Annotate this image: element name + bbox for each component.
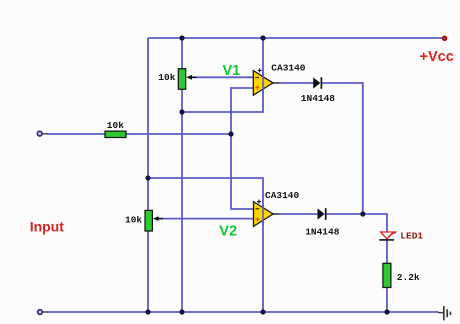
wire R1 wiper to U1 inverting input	[190, 76, 253, 78]
svg-text:LED1: LED1	[400, 230, 423, 241]
junction dot R1 bottom node	[179, 109, 184, 114]
wire left rail (+Vcc to pot R2 top and R2 bottom to ground rail)	[147, 38, 149, 312]
wire U1 output to diode D1	[273, 82, 314, 84]
wire D1 cathode right then down to output node	[322, 83, 363, 214]
wire D2 cathode to output node to LED1 anode	[326, 214, 387, 232]
svg-text:Input: Input	[30, 219, 65, 235]
wire U2 output to diode D2	[273, 213, 318, 215]
wire input to U1 noninverting input	[231, 88, 253, 134]
svg-text:2.2k: 2.2k	[397, 272, 420, 283]
junction dot top rail / V1 supply	[260, 35, 265, 40]
svg-text:10k: 10k	[125, 215, 142, 226]
terminal input upper	[37, 131, 47, 136]
diode D2 1N4148	[318, 208, 326, 220]
wire input to U2 inverting input	[231, 134, 253, 209]
wire V2 supply branch (left rail node y=178 right then down through U2 to ground rail)	[148, 178, 263, 312]
wire input line (terminal through R3 to node x=231)	[47, 133, 232, 135]
svg-text:1N4148: 1N4148	[305, 226, 340, 237]
junction dot top rail / R1	[179, 35, 184, 40]
wire V1 supply branch (top rail down through U1 to node at y=112, left to R1 bottom)	[182, 38, 263, 112]
wire R2 wiper to U2 noninverting input	[157, 218, 253, 220]
junction dot ground rail / R1 branch	[179, 309, 184, 314]
junction dot left rail / V2 supply	[145, 175, 150, 180]
svg-text:CA3140: CA3140	[265, 190, 300, 201]
resistor R4 2.2k vertical body	[383, 263, 391, 287]
LED LED1	[379, 231, 397, 240]
resistor R3 10k horizontal body	[105, 131, 126, 137]
node +Vcc terminal dot	[442, 36, 447, 41]
junction dot diode output node	[360, 211, 365, 216]
wire bottom ground rail	[47, 311, 439, 313]
svg-text:1N4148: 1N4148	[301, 93, 336, 104]
wire top +Vcc rail	[148, 37, 444, 39]
op-amp U1 CA3140	[253, 68, 279, 95]
potentiometer R1 10k body	[178, 69, 196, 90]
junction dot ground rail / V2 supply	[260, 309, 265, 314]
svg-text:V2: V2	[219, 224, 237, 240]
svg-text:10k: 10k	[107, 120, 124, 131]
potentiometer R2 10k body	[145, 210, 163, 231]
wire pot R1 branch (x=182 from +Vcc rail to ground rail)	[181, 38, 183, 312]
wire LED1 cathode through R4 to ground rail	[386, 240, 388, 312]
junction dot input node	[228, 131, 233, 136]
svg-text:V1: V1	[223, 63, 241, 79]
op-amp U2 CA3140	[254, 200, 280, 227]
svg-text:+Vcc: +Vcc	[420, 49, 454, 65]
junction dot ground rail / R4	[384, 309, 389, 314]
junction dot ground rail / left rail	[145, 309, 150, 314]
svg-text:10k: 10k	[158, 72, 175, 83]
terminal input lower	[38, 310, 48, 315]
svg-text:CA3140: CA3140	[271, 63, 306, 74]
ground symbol	[438, 306, 450, 320]
diode D1 1N4148	[313, 77, 321, 89]
